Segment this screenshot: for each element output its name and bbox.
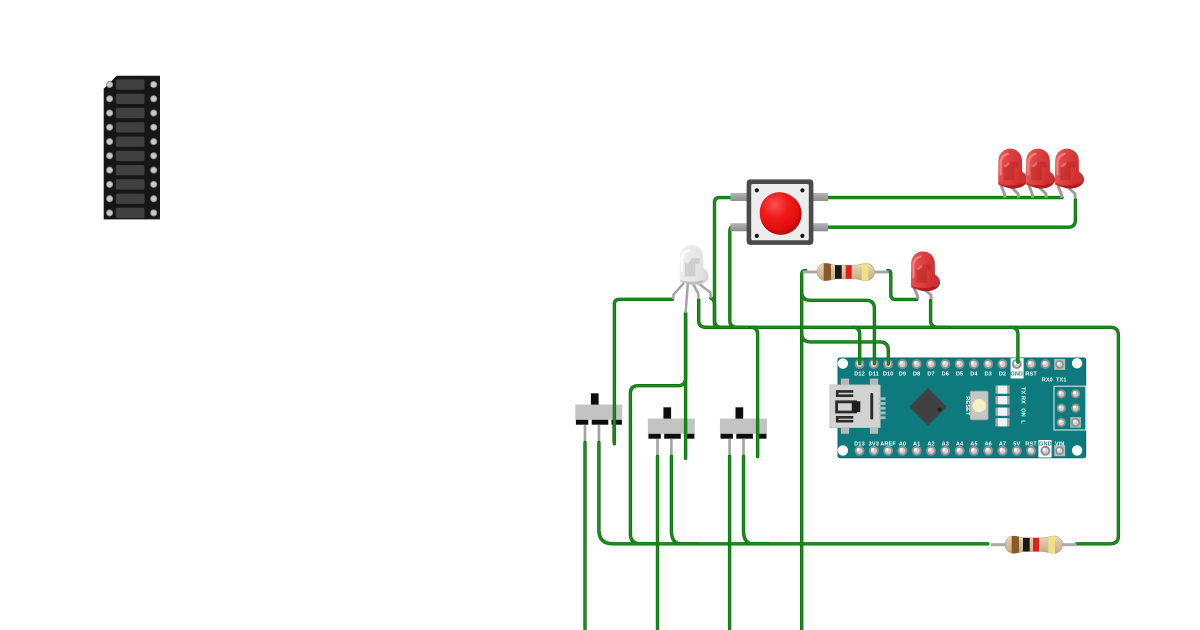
svg-text:TX RX: TX RX [1019,387,1025,404]
svg-text:ON: ON [1020,408,1026,417]
wire GND bus: RGB leg3 to top bus, right side down to R2 [699,300,1119,544]
LED4 red legs [914,288,931,299]
wire SW2 left leg down off-screen [656,456,659,630]
svg-text:L: L [1020,420,1026,424]
svg-text:D3: D3 [985,371,992,377]
wire button bottom-right to LED3 anode [827,200,1076,227]
LED1 red [998,149,1027,189]
svg-text:RST: RST [1025,371,1037,377]
svg-text:D9: D9 [899,371,906,377]
svg-text:D11: D11 [869,371,879,377]
svg-text:D4: D4 [970,371,978,377]
svg-text:AREF: AREF [880,442,896,448]
LED3 red legs [1058,186,1075,198]
svg-text:D12: D12 [854,371,865,377]
pushbutton SW4 [730,179,828,245]
wire bus to nano D12 [854,327,860,363]
RGB LED legs [673,283,711,314]
wire bus to switch SW3 right leg [752,327,758,456]
wire SW3 middle leg to bottom bus [744,456,768,543]
svg-text:GND: GND [1039,442,1052,448]
wire R1 left to nano D10 [802,333,889,364]
resistor R1 220ohm [803,262,889,282]
svg-text:5V: 5V [1013,442,1020,448]
wire LED4 anode to bus [931,301,949,328]
svg-text:A6: A6 [985,442,992,448]
wire SW1 left leg down off-screen [583,442,586,630]
arduino nano U1 [830,358,1086,458]
LED3 red [1055,149,1084,189]
wire bus to nano GND [1011,327,1018,362]
LED2 red legs [1029,186,1046,198]
LED2 red [1026,149,1055,189]
svg-text:D7: D7 [927,371,934,377]
svg-text:A4: A4 [956,442,964,448]
svg-text:A2: A2 [927,442,934,448]
wire RGB leg2 to bottom bus [630,313,685,544]
wire RGB leg1 to switch SW1 right leg [614,299,672,444]
svg-text:GND: GND [1010,371,1023,377]
svg-text:D2: D2 [999,371,1006,377]
svg-text:A3: A3 [942,442,949,448]
slide switch SW1 [575,393,622,442]
LED4 red [911,251,940,291]
RGB LED [679,245,708,285]
wire R1 left to nano D11 [802,292,875,364]
wire button bottom-left to bus [730,227,748,327]
slide switch SW3 [720,407,767,456]
svg-text:RST: RST [1025,442,1037,448]
svg-text:VIN: VIN [1055,442,1065,448]
wire resistor R1 left lead down off-screen [802,271,806,630]
wire bottom bus: SW1 middle leg to resistor R2 [599,442,988,543]
svg-text:D13: D13 [854,442,865,448]
svg-text:RX0: RX0 [1042,378,1053,384]
wire button top-right to LED3 cathode [827,196,1063,199]
led bar graph DISP1 [104,76,160,220]
wire button top-left to bus [715,198,734,328]
slide switch SW2 [648,407,695,456]
svg-text:TX1: TX1 [1056,378,1067,384]
svg-text:A5: A5 [970,442,977,448]
svg-text:D5: D5 [956,371,963,377]
wire R1 right to LED4 cathode [888,271,917,300]
wire RGB leg4 to bus [711,298,715,324]
svg-text:A1: A1 [913,442,920,448]
svg-text:A0: A0 [899,442,906,448]
svg-text:D6: D6 [942,371,949,377]
svg-text:D10: D10 [883,371,894,377]
svg-text:RESET: RESET [964,396,970,416]
resistor R2 220ohm [991,535,1077,555]
wire SW2 middle leg to bottom bus [671,456,695,543]
wire SW3 left leg down off-screen [728,456,731,630]
svg-text:3V3: 3V3 [869,442,879,448]
wire RGB leg2 to switch SW2 right leg [684,313,687,458]
LED1 red legs [1001,186,1018,198]
svg-text:D8: D8 [913,371,920,377]
svg-text:A7: A7 [999,442,1006,448]
